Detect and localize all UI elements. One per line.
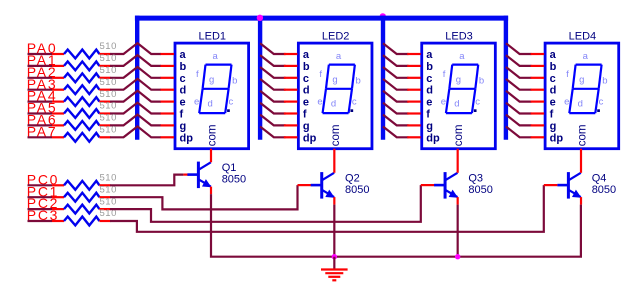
resistor 510 on PA5: [64, 109, 99, 118]
wire LED1 com pin to Q1 collector: [210, 149, 212, 163]
wire PA4: [28, 100, 53, 102]
wire PA2 to bus: [99, 77, 110, 79]
wire PA2 bus entry chevron: [110, 67, 161, 78]
junction dot on bus at LED3 (behind bus): [380, 13, 386, 19]
Q2 emitter stub: [333, 197, 335, 205]
junction dot on bus at LED2: [257, 15, 263, 21]
wire PC3 to Q4 base: [110, 185, 544, 232]
svg-text:510: 510: [100, 41, 117, 52]
wire PC2 to Q3 base: [110, 185, 421, 222]
wire bus exit to LED3 pin b: [383, 55, 409, 66]
wire bus exit to LED2 pin f: [260, 103, 286, 114]
wire PA0: [28, 53, 53, 55]
wire PA7 to bus: [99, 136, 110, 138]
resistor 510 on PA2: [64, 73, 99, 82]
wire bus exit to LED4 pin e: [506, 91, 532, 102]
resistor 510 on PA4: [64, 97, 99, 106]
Q3 emitter stub: [457, 197, 459, 205]
wire PC0: [28, 184, 53, 186]
svg-text:8050: 8050: [345, 184, 369, 196]
wire PA2: [28, 77, 53, 79]
wire PA5: [28, 112, 53, 114]
wire bus exit to LED3 pin dp: [383, 127, 409, 138]
svg-text:LED1: LED1: [199, 30, 227, 42]
7-segment display LED4: [531, 43, 619, 149]
Q1 emitter stub: [210, 187, 212, 195]
wire PA0 bus entry chevron: [110, 43, 161, 54]
svg-text:510: 510: [100, 101, 117, 112]
wire bus exit to LED4 pin a: [506, 43, 532, 54]
resistor 510 on PA7: [64, 133, 99, 142]
wire bus exit to LED3 pin f: [383, 103, 409, 114]
svg-text:510: 510: [100, 89, 117, 100]
svg-text:510: 510: [100, 65, 117, 76]
junction dot Q3 emitter: [455, 254, 460, 259]
wire bus exit to LED3 pin e: [383, 91, 409, 102]
wire PA4 bus entry chevron: [110, 91, 161, 102]
wire PA7: [28, 136, 53, 138]
wire PA3 to bus: [99, 89, 110, 91]
transistor Q1 (8050 NPN): [187, 162, 211, 189]
wire bus exit to LED2 pin d: [260, 79, 286, 90]
wire PC2 from resistor: [99, 208, 110, 210]
wire PA4 to bus: [99, 100, 110, 102]
wire PA1 to bus: [99, 65, 110, 67]
Q4 emitter stub: [580, 197, 582, 205]
wire LED3 com pin to Q3 collector: [457, 149, 459, 173]
wire bus exit to LED3 pin d: [383, 79, 409, 90]
bus: vertical segment bus for LED1: [135, 16, 139, 140]
wire LED4 com pin to Q4 collector: [580, 149, 582, 173]
wire Q3 emitter down: [457, 205, 459, 257]
bus: vertical segment bus for LED3: [381, 16, 385, 140]
ground: [333, 257, 335, 269]
wire bus exit to LED4 pin c: [506, 67, 532, 78]
svg-text:LED2: LED2: [322, 30, 350, 42]
resistor 510 on PA0: [64, 50, 99, 59]
svg-text:510: 510: [100, 125, 117, 136]
wire PC3 from resistor: [99, 220, 110, 222]
bus: vertical segment bus for LED4: [504, 16, 508, 140]
wire bus exit to LED2 pin b: [260, 55, 286, 66]
7-segment display LED3: [407, 43, 495, 149]
wire PC1 from resistor: [99, 196, 110, 198]
svg-text:LED3: LED3: [445, 30, 473, 42]
resistor 510 on PC3: [64, 217, 99, 226]
resistor 510 on PC0: [64, 181, 99, 190]
svg-text:Q3: Q3: [468, 172, 483, 184]
wire bus exit to LED2 pin c: [260, 67, 286, 78]
transistor Q3 (8050 NPN): [434, 172, 458, 199]
wire PA6: [28, 124, 53, 126]
wire PA1 bus entry chevron: [110, 55, 161, 66]
wire PA5 bus entry chevron: [110, 103, 161, 114]
wire bus exit to LED2 pin g: [260, 115, 286, 126]
7-segment display LED1: [161, 43, 249, 149]
wire PA1: [28, 65, 53, 67]
wire PA3 bus entry chevron: [110, 79, 161, 90]
wire LED2 com pin to Q2 collector: [333, 149, 335, 173]
resistor 510 on PC1: [64, 193, 99, 202]
svg-text:510: 510: [100, 77, 117, 88]
wire bus exit to LED4 pin g: [506, 115, 532, 126]
wire bus exit to LED4 pin d: [506, 79, 532, 90]
wire PA0 to bus: [99, 53, 110, 55]
wire bus exit to LED4 pin dp: [506, 127, 532, 138]
wire bus exit to LED3 pin g: [383, 115, 409, 126]
svg-text:Q1: Q1: [222, 162, 237, 174]
svg-text:510: 510: [100, 113, 117, 124]
svg-text:8050: 8050: [592, 184, 616, 196]
svg-text:510: 510: [100, 53, 117, 64]
wire PC1 to Q2 base: [110, 185, 298, 209]
wire PC0 from resistor: [99, 184, 110, 186]
wire PA5 to bus: [99, 112, 110, 114]
junction dot Q2 emitter / ground: [332, 254, 337, 259]
resistor 510 on PA6: [64, 121, 99, 130]
transistor Q4 (8050 NPN): [557, 172, 581, 199]
wire bus exit to LED2 pin e: [260, 91, 286, 102]
wire PC2: [28, 208, 53, 210]
svg-text:8050: 8050: [222, 174, 246, 186]
wire PA6 to bus: [99, 124, 110, 126]
svg-text:8050: 8050: [468, 184, 492, 196]
bus: vertical segment bus for LED2: [258, 16, 262, 140]
svg-text:Q4: Q4: [592, 172, 607, 184]
wire ground rail joining emitters: [211, 194, 581, 257]
svg-text:Q2: Q2: [345, 172, 360, 184]
resistor 510 on PC2: [64, 205, 99, 214]
wire PC3: [28, 220, 53, 222]
wire bus exit to LED2 pin a: [260, 43, 286, 54]
wire PA6 bus entry chevron: [110, 115, 161, 126]
svg-text:LED4: LED4: [569, 30, 597, 42]
wire bus exit to LED3 pin c: [383, 67, 409, 78]
wire PC0 to Q1 base: [110, 175, 183, 186]
wire bus exit to LED4 pin f: [506, 103, 532, 114]
svg-text:510: 510: [100, 173, 117, 184]
bus: top horizontal power bus: [135, 16, 508, 21]
7-segment display LED2: [284, 43, 372, 149]
resistor 510 on PA1: [64, 62, 99, 71]
wire PA7 bus entry chevron: [110, 126, 161, 137]
wire bus exit to LED4 pin b: [506, 55, 532, 66]
wire PC1: [28, 196, 53, 198]
transistor Q2 (8050 NPN): [311, 172, 335, 199]
wire bus exit to LED2 pin dp: [260, 127, 286, 138]
wire PA3: [28, 89, 53, 91]
wire bus exit to LED3 pin a: [383, 43, 409, 54]
wire Q2 emitter down: [333, 205, 335, 257]
resistor 510 on PA3: [64, 85, 99, 94]
